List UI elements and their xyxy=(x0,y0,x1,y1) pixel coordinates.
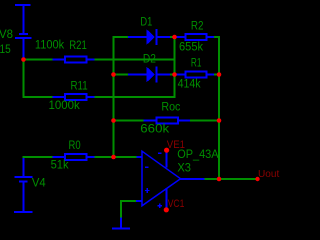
svg-text:Roc: Roc xyxy=(161,102,180,114)
svg-text:655k: 655k xyxy=(179,42,203,54)
svg-text:660k: 660k xyxy=(140,123,169,135)
svg-text:414k: 414k xyxy=(178,79,201,91)
svg-text:R1: R1 xyxy=(191,58,202,70)
svg-text:Uout: Uout xyxy=(258,168,279,180)
svg-text:1000k: 1000k xyxy=(49,100,81,112)
svg-text:D1: D1 xyxy=(140,17,152,29)
svg-text:VE1: VE1 xyxy=(167,139,185,151)
svg-text:VC1: VC1 xyxy=(168,198,185,210)
svg-text:D2: D2 xyxy=(143,54,156,66)
svg-text:15: 15 xyxy=(0,44,11,56)
svg-text:R2: R2 xyxy=(191,21,204,33)
svg-text:R11: R11 xyxy=(71,80,88,92)
svg-text:V4: V4 xyxy=(32,178,46,190)
svg-text:X3: X3 xyxy=(177,163,191,175)
svg-text:R21: R21 xyxy=(69,40,87,52)
svg-text:51k: 51k xyxy=(51,160,69,172)
svg-text:R0: R0 xyxy=(69,140,81,152)
svg-text:V8: V8 xyxy=(0,29,13,41)
svg-text:1100k: 1100k xyxy=(35,40,64,52)
